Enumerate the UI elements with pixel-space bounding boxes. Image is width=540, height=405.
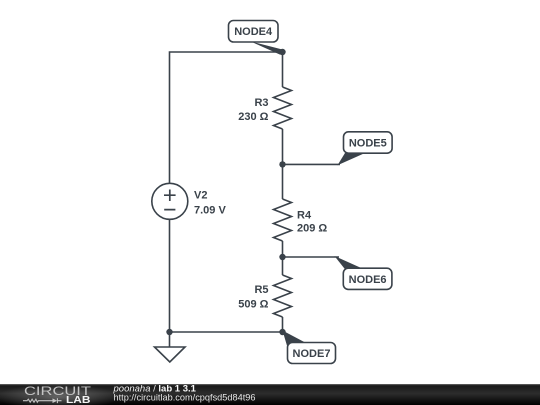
svg-text:NODE4: NODE4 [234, 26, 273, 38]
svg-text:R5: R5 [254, 284, 268, 296]
junction dot NODE7 [279, 329, 285, 335]
resistor R5 zigzag [274, 275, 292, 317]
wire: left vertical lower + bottom horizontal (V2 bottom to NODE7 junction) [170, 220, 283, 333]
wire: R3 bottom lead to NODE5 junction [282, 129, 284, 164]
logo resistor squiggle [23, 399, 53, 402]
svg-text:509 Ω: 509 Ω [238, 299, 268, 311]
node NODE4 label box [229, 21, 279, 43]
wire: NODE5 junction to R4 top [282, 164, 284, 199]
junction dot NODE6 [279, 254, 285, 260]
svg-text:230 Ω: 230 Ω [238, 111, 268, 123]
wire: NODE6 stub horizontal [283, 256, 340, 258]
resistor R4 zigzag [274, 199, 292, 241]
node NODE7 label tail [283, 331, 309, 353]
svg-text:NODE7: NODE7 [293, 348, 331, 360]
ground [155, 332, 186, 362]
wire: NODE6 junction to R5 top [282, 257, 284, 275]
voltage source V2 [152, 183, 188, 219]
svg-text:NODE5: NODE5 [349, 138, 387, 150]
svg-text:V2: V2 [194, 190, 207, 202]
node NODE4 label tail [251, 41, 285, 54]
wire: NODE5 stub horizontal [283, 163, 341, 165]
wire: top horizontal + left vertical upper (NODE4 corner to V2 top) [170, 52, 283, 184]
wire: right vertical lead NODE4 to R3 top [282, 52, 284, 87]
wire: R4 bottom lead to NODE6 junction [282, 241, 284, 257]
junction dot ground corner [166, 329, 172, 335]
junction dot NODE4 corner [279, 49, 285, 55]
footer bar [0, 384, 540, 405]
svg-text:LAB: LAB [66, 394, 91, 405]
svg-text:R3: R3 [254, 97, 268, 109]
node NODE5 label box [344, 132, 393, 153]
junction dot NODE5 [279, 161, 285, 167]
node NODE6 label box [343, 268, 392, 289]
svg-text:209 Ω: 209 Ω [297, 222, 327, 234]
svg-text:NODE6: NODE6 [349, 274, 387, 286]
logo diode [53, 398, 58, 403]
node NODE7 label box [288, 343, 336, 364]
svg-text:7.09 V: 7.09 V [194, 204, 226, 216]
wire: R5 bottom lead to NODE7 junction [282, 317, 284, 332]
node NODE6 label tail [335, 256, 365, 269]
svg-text:R4: R4 [297, 209, 312, 221]
svg-text:http://circuitlab.com/cpqfsd5d: http://circuitlab.com/cpqfsd5d84t96 [114, 393, 256, 404]
resistor R3 zigzag [274, 87, 292, 129]
node NODE5 label tail [338, 153, 366, 165]
